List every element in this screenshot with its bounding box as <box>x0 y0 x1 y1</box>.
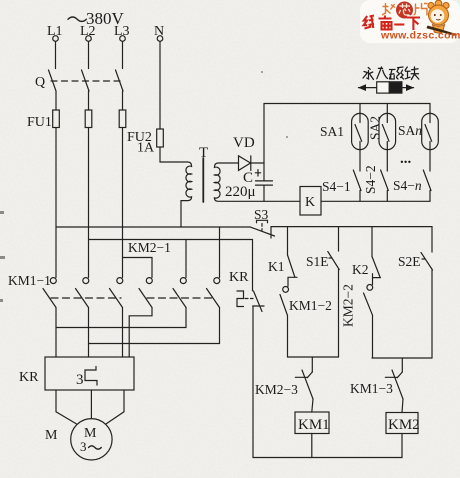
svg-text:VD: VD <box>233 135 255 151</box>
logo text wei ku yi xia <box>364 16 420 31</box>
contact KM2-1 pole A <box>146 278 152 284</box>
wire L1 column <box>55 128 57 278</box>
wire KM2 branch stub <box>401 358 403 372</box>
wire K1 branch top <box>287 227 289 255</box>
contact KM2-1 pole C <box>214 278 220 284</box>
switch S3 <box>251 227 275 238</box>
fuse FU1 b <box>85 110 92 128</box>
logo watermark <box>360 0 460 43</box>
logo text pian <box>413 3 428 16</box>
wire N drop <box>159 42 161 130</box>
terminal N <box>157 36 163 42</box>
wire merge bar right <box>372 357 432 359</box>
contact KM1-2 terminal <box>283 287 289 293</box>
wire KM2-1 B output crossover <box>56 308 186 328</box>
transformer secondary <box>214 163 300 201</box>
wire dc top bus <box>264 103 430 105</box>
wire KR to motor mid <box>90 390 92 419</box>
contact KM1-3 NC <box>385 370 403 399</box>
logo text xin (chip, on red circle) <box>399 4 410 16</box>
svg-text:3: 3 <box>76 372 84 388</box>
switch S4-1 <box>353 170 361 201</box>
reed switch SA2 <box>379 113 396 149</box>
svg-text:K1: K1 <box>268 259 285 274</box>
terminal L2 <box>86 36 92 42</box>
thermal actuator symbol <box>237 291 244 307</box>
fuse FU2 <box>157 129 164 147</box>
wire KM2-3 to KM1 coil <box>312 399 313 412</box>
svg-text:220μ: 220μ <box>225 184 256 200</box>
contact KR NC <box>253 291 264 312</box>
transformer core <box>202 158 204 202</box>
linkage KM1-1 dashed <box>51 297 121 299</box>
terminal L1 <box>53 36 59 42</box>
capacitor plus sign <box>255 170 260 176</box>
label permanent magnet (drawn glyphs yong jiu ci tie) <box>363 67 419 80</box>
switch S4-2 <box>381 170 389 201</box>
switch Q pole 1 <box>49 70 57 91</box>
switch S3 actuator <box>257 220 268 223</box>
wire L1 drop <box>55 42 57 69</box>
wire Q1 to FU1 <box>55 91 57 110</box>
relay K box <box>300 187 321 216</box>
svg-text:S4−n: S4−n <box>393 178 422 193</box>
logo text wei ku yi xia (white halo) <box>364 16 420 31</box>
svg-text:SAn: SAn <box>398 123 422 138</box>
svg-text:L1: L1 <box>47 24 63 39</box>
contact KM1-1 pole A <box>50 278 56 284</box>
logo red circle <box>396 2 413 19</box>
svg-text:KM1−2: KM1−2 <box>289 298 332 313</box>
bus 1 left <box>56 226 251 228</box>
svg-text:KM2−2: KM2−2 <box>341 284 356 327</box>
contact KM1-2 <box>280 295 288 316</box>
wire Q2 to FU1 <box>88 91 90 110</box>
svg-text:KM2: KM2 <box>388 417 420 433</box>
svg-text:L3: L3 <box>114 24 130 39</box>
fuse FU1 a <box>53 110 60 128</box>
wire K2 branch bottom <box>372 315 374 358</box>
logo white halo <box>360 0 460 43</box>
svg-text:K: K <box>305 195 315 210</box>
wire motor lead U <box>55 308 57 358</box>
wire KR to motor right <box>106 390 124 424</box>
svg-text:Q: Q <box>35 75 45 90</box>
wire L3 link to KM2-1 pole A <box>123 258 153 278</box>
wire merge bar left <box>288 356 339 358</box>
wire KR to motor left <box>56 390 77 424</box>
wire KM1 branch stub <box>311 357 313 372</box>
diode VD <box>239 156 265 171</box>
wire S1 branch bottom <box>338 270 340 358</box>
bus 2 <box>89 239 253 241</box>
wire Q3 to FU1 <box>122 91 124 110</box>
bus 1 right <box>271 226 432 228</box>
wire dc positive riser <box>263 104 265 164</box>
logo text zhao (find) <box>382 3 395 15</box>
wire L3 column <box>122 128 124 258</box>
svg-text:K2: K2 <box>352 262 369 277</box>
wire K1 branch bottom <box>287 316 289 358</box>
wire KM2-1 A output crossover <box>129 308 152 358</box>
svg-text:FU1: FU1 <box>27 115 52 130</box>
transformer primary <box>160 162 192 227</box>
svg-text:KM1−1: KM1−1 <box>8 273 51 288</box>
contact KM1-1 pole C <box>117 278 123 284</box>
svg-text:SA2: SA2 <box>368 116 383 140</box>
magnet body white half <box>377 82 390 93</box>
wire S2 branch top <box>431 227 433 252</box>
logo mascot <box>427 0 459 36</box>
svg-text:M: M <box>45 428 58 443</box>
switch S2 <box>421 253 433 271</box>
switch S2 actuator dashes <box>422 258 427 260</box>
magnet arrow <box>359 87 414 89</box>
wire KM2-1 pole C from bus1 <box>219 227 221 277</box>
linkage KM2-1 dashed <box>147 297 216 299</box>
wire S1 branch top <box>338 227 340 251</box>
wire KM1-3 to KM2 coil <box>402 399 403 413</box>
wire KR branch to bottom <box>252 306 254 458</box>
thermal relay KR box <box>45 357 134 390</box>
switch Q pole 2 <box>82 70 90 91</box>
svg-text:KM1−3: KM1−3 <box>350 381 393 396</box>
svg-text:SA1: SA1 <box>320 124 344 139</box>
contact K1 <box>288 255 298 286</box>
contact KM2-2 terminal <box>367 285 373 291</box>
wire S2 branch bottom <box>431 270 433 358</box>
wire FU2 to corner <box>159 147 161 162</box>
wire motor lead V <box>88 308 90 358</box>
svg-text:S4−1: S4−1 <box>322 179 351 194</box>
contact KM1-1 pole B <box>83 278 89 284</box>
scan specks <box>0 71 288 302</box>
switch S1 <box>328 252 339 270</box>
wire KM2 coil to bottom <box>401 434 403 458</box>
wire K2 branch top <box>371 227 373 257</box>
magnet body black half <box>389 82 402 93</box>
capacitor C <box>256 163 273 201</box>
svg-text:L2: L2 <box>80 24 96 39</box>
svg-text:3: 3 <box>80 439 87 454</box>
svg-text:KR: KR <box>19 370 39 385</box>
svg-text:S4−2: S4−2 <box>363 165 378 194</box>
wire L2 drop <box>88 42 90 69</box>
svg-text:www.dzsc.com: www.dzsc.com <box>380 30 460 42</box>
motor M <box>71 419 112 460</box>
svg-text:S2E: S2E <box>398 254 421 269</box>
wire motor lead W <box>122 308 124 358</box>
terminal L3 <box>120 36 126 42</box>
reed switch SA1 <box>352 113 369 149</box>
reed switch SAn <box>422 113 439 149</box>
switch S4-n <box>423 170 431 201</box>
wire bottom return <box>253 457 402 459</box>
switch S1 actuator dashes <box>329 257 334 259</box>
contact KM2-2 <box>364 293 373 315</box>
svg-text:KR: KR <box>229 270 249 285</box>
heater symbol in KR box <box>85 367 97 386</box>
svg-text:KM2−1: KM2−1 <box>128 240 171 255</box>
thermal actuator dashes <box>245 298 253 300</box>
coil KM2 box <box>386 413 418 434</box>
contact KM2-3 NC <box>295 370 313 399</box>
svg-text:S1E: S1E <box>306 254 329 269</box>
switch Q pole 3 <box>116 70 124 91</box>
svg-text:...: ... <box>400 151 412 167</box>
fuse FU1 c <box>119 110 126 128</box>
wire dc bottom bus right <box>321 200 430 202</box>
svg-text:1A: 1A <box>137 141 155 156</box>
wire KM2-1 C output crossover <box>89 308 220 344</box>
svg-text:KM1: KM1 <box>298 417 330 433</box>
wire KM2-1 pole B from bus2 <box>185 240 187 278</box>
wire L3 drop <box>122 42 124 69</box>
coil KM1 box <box>295 412 329 434</box>
contact KM2-1 pole B <box>180 278 186 284</box>
contact K2 <box>372 257 381 285</box>
wire KM1 coil to bottom <box>311 434 313 458</box>
wire L2 column <box>88 128 90 278</box>
wire KR branch drop <box>252 240 254 291</box>
svg-text:KM2−3: KM2−3 <box>255 382 298 397</box>
switch Q linkage dashed <box>51 80 120 82</box>
